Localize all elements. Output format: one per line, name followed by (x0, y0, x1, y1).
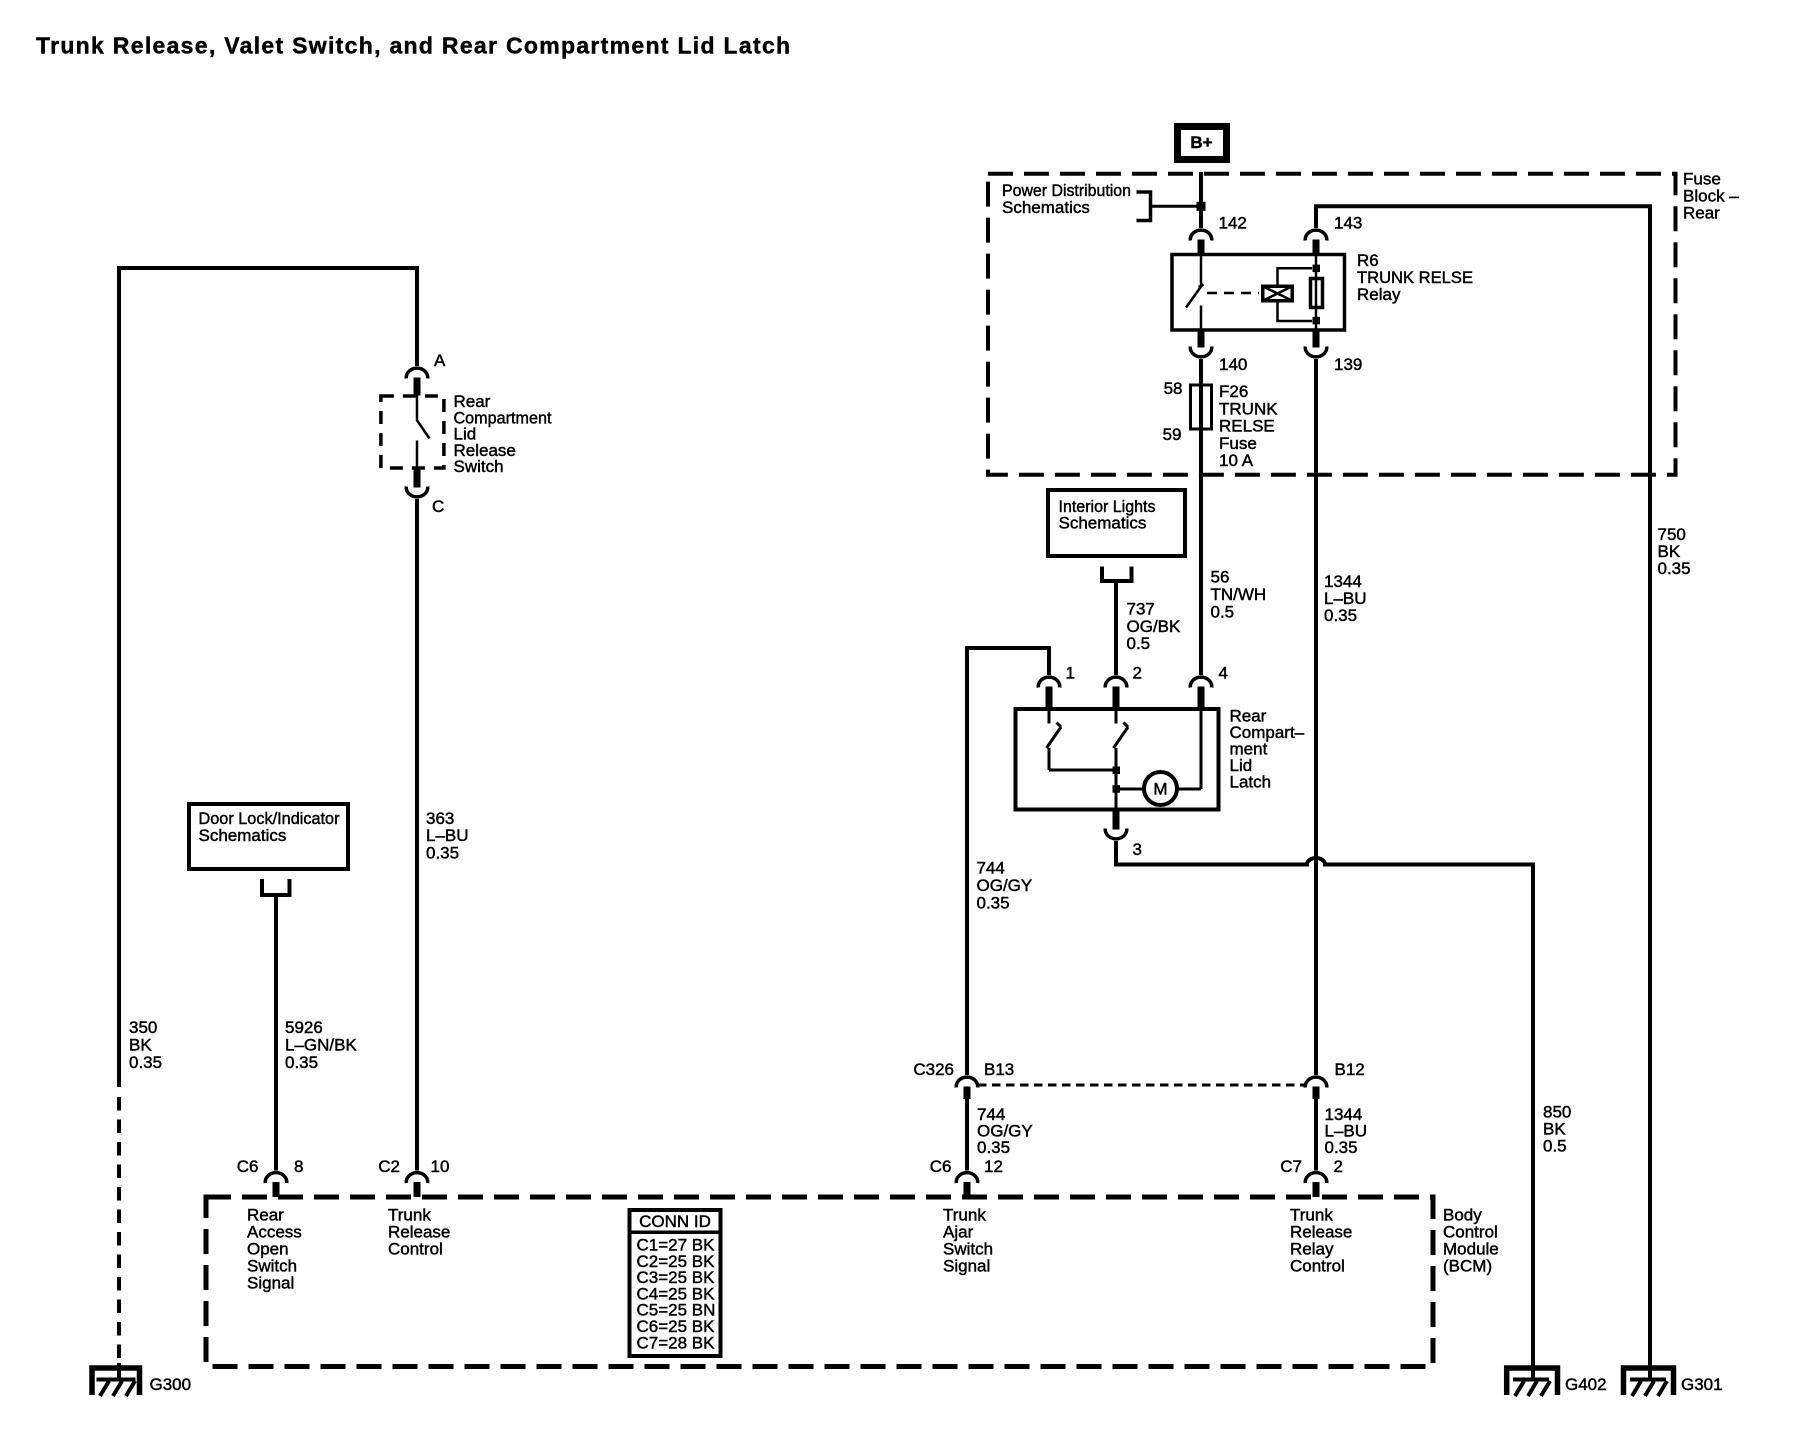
connector C7 pin 2 (1280, 1157, 1343, 1197)
label 750 BK 0.35 (1658, 525, 1691, 578)
svg-text:Trunk Release, Valet Switch, a: Trunk Release, Valet Switch, and Rear Co… (36, 33, 791, 59)
label 850 BK 0.5 (1543, 1103, 1571, 1156)
wire dashed lower segment to G300 (117, 1097, 121, 1366)
svg-text:12: 12 (984, 1157, 1003, 1176)
svg-text:G402: G402 (1565, 1375, 1607, 1394)
svg-text:0.35: 0.35 (129, 1053, 162, 1072)
svg-text:Schematics: Schematics (1059, 514, 1147, 533)
latch switch 1 (1047, 709, 1062, 770)
Fuse Block - Rear dashed box (988, 174, 1676, 475)
svg-text:B13: B13 (984, 1060, 1014, 1079)
wire 1344 from 139 down to B12 (1314, 359, 1318, 1075)
svg-text:143: 143 (1334, 214, 1362, 233)
svg-text:RELSE: RELSE (1219, 417, 1275, 436)
svg-text:142: 142 (1219, 214, 1247, 233)
svg-text:Signal: Signal (943, 1257, 990, 1276)
label 1344 L-BU 0.35 lower (1325, 1105, 1368, 1157)
latch box Rear Compartment Lid Latch (1016, 709, 1219, 810)
svg-text:L–BU: L–BU (426, 826, 469, 845)
motor M (1144, 772, 1177, 805)
svg-text:3: 3 (1133, 840, 1142, 859)
label Power Distribution Schematics (1002, 181, 1131, 217)
svg-text:737: 737 (1127, 600, 1155, 619)
ground G300 (92, 1363, 191, 1396)
svg-text:M: M (1153, 780, 1167, 799)
svg-text:F26: F26 (1219, 382, 1248, 401)
wire 140 to fuse to latch pin 4 (1199, 359, 1203, 675)
junction (1197, 202, 1206, 211)
svg-text:10: 10 (431, 1157, 450, 1176)
connector C6 pin 8 (237, 1157, 304, 1197)
svg-text:0.35: 0.35 (977, 894, 1010, 913)
schematic continuation bracket (interior lights) (1102, 567, 1132, 582)
connector C (406, 469, 444, 516)
label Body Control Module (BCM) (1443, 1206, 1499, 1276)
connector 2 (1105, 664, 1142, 709)
svg-text:G300: G300 (150, 1375, 192, 1394)
label Trunk Ajar Switch Signal (943, 1206, 993, 1276)
svg-text:0.35: 0.35 (977, 1138, 1010, 1157)
svg-text:4: 4 (1219, 664, 1228, 683)
label 56 TN/WH 0.5 (1211, 568, 1267, 622)
svg-text:Latch: Latch (1230, 773, 1272, 792)
wire 737 (1114, 581, 1118, 675)
dotted connector line C326 (978, 1084, 1305, 1087)
label F26 TRUNK RELSE Fuse 10 A (1219, 382, 1278, 470)
connector 139 (1305, 330, 1362, 374)
svg-text:0.5: 0.5 (1127, 634, 1151, 653)
svg-text:0.35: 0.35 (285, 1053, 318, 1072)
label 5926 L-GN/BK 0.35 (285, 1018, 357, 1072)
connector C6 pin 12 (930, 1157, 1003, 1197)
svg-text:Control: Control (1290, 1257, 1345, 1276)
svg-text:BK: BK (129, 1036, 152, 1055)
label 1344 L-BU 0.35 upper (1324, 572, 1367, 625)
label Rear Compartment Lid Latch (1230, 707, 1305, 792)
relay resistor (1311, 255, 1323, 331)
svg-text:Switch: Switch (454, 457, 504, 476)
connector A (406, 351, 446, 396)
svg-text:140: 140 (1219, 355, 1247, 374)
svg-text:C2: C2 (378, 1157, 400, 1176)
label 744 OG/GY 0.35 lower (977, 1105, 1033, 1157)
connector 3 (1105, 810, 1142, 859)
Body Control Module dashed box (206, 1197, 1433, 1367)
svg-text:C6: C6 (237, 1157, 259, 1176)
svg-text:0.5: 0.5 (1543, 1137, 1567, 1156)
wire 363 (415, 499, 419, 1171)
ground G402 (1507, 1363, 1607, 1396)
junction top (1313, 265, 1321, 273)
svg-text:Rear: Rear (1683, 204, 1720, 223)
connector 140 (1190, 330, 1247, 374)
svg-text:B+: B+ (1190, 133, 1212, 152)
connector 1 (1038, 664, 1075, 709)
label 737 OG/BK 0.5 (1127, 600, 1182, 654)
CONN ID table (628, 1210, 723, 1356)
svg-text:C7: C7 (1280, 1157, 1302, 1176)
svg-text:Fuse: Fuse (1219, 434, 1257, 453)
svg-text:OG/GY: OG/GY (977, 876, 1033, 895)
label Fuse Block - Rear (1683, 170, 1739, 223)
svg-text:10 A: 10 A (1219, 451, 1254, 470)
svg-text:0.35: 0.35 (1658, 559, 1691, 578)
svg-text:2: 2 (1334, 1157, 1343, 1176)
svg-text:0.35: 0.35 (1324, 606, 1357, 625)
svg-text:C6: C6 (930, 1157, 952, 1176)
svg-text:350: 350 (129, 1018, 157, 1037)
svg-text:L–GN/BK: L–GN/BK (285, 1036, 357, 1055)
wire B13 to C6/12 (965, 1099, 969, 1171)
relay coil (1263, 268, 1312, 321)
svg-text:0.5: 0.5 (1211, 603, 1235, 622)
svg-text:Signal: Signal (247, 1274, 294, 1293)
svg-text:C7=28 BK: C7=28 BK (637, 1333, 716, 1352)
svg-text:0.35: 0.35 (426, 844, 459, 863)
svg-text:OG/BK: OG/BK (1127, 617, 1182, 636)
label R6 TRUNK RELSE Relay (1357, 251, 1473, 304)
svg-text:59: 59 (1163, 425, 1182, 444)
svg-text:CONN ID: CONN ID (639, 1212, 711, 1231)
svg-text:58: 58 (1164, 379, 1183, 398)
wire 750 BK from 143 up and right down to G301 (1316, 206, 1650, 1366)
svg-text:2: 2 (1133, 664, 1142, 683)
label 363 L-BU 0.35 (426, 809, 469, 863)
svg-text:8: 8 (294, 1157, 303, 1176)
B+ battery feed (1178, 127, 1227, 160)
svg-text:5926: 5926 (285, 1018, 323, 1037)
svg-text:A: A (434, 351, 446, 370)
connector 4 (1190, 664, 1228, 709)
junction bottom (1313, 317, 1321, 325)
power distribution bracket (1137, 192, 1198, 221)
svg-text:C: C (432, 497, 444, 516)
svg-text:139: 139 (1334, 355, 1362, 374)
svg-text:C326: C326 (913, 1060, 954, 1079)
connector C326 B13 (913, 1060, 1014, 1099)
latch switch 2 (ajar) (1114, 709, 1129, 812)
svg-text:Schematics: Schematics (199, 826, 287, 845)
svg-text:1: 1 (1066, 664, 1075, 683)
wire B12 to C7/2 (1314, 1099, 1318, 1171)
fuse F26 (1163, 379, 1212, 444)
svg-text:0.35: 0.35 (1325, 1138, 1358, 1157)
svg-text:744: 744 (977, 859, 1005, 878)
label Trunk Release Control (388, 1206, 450, 1259)
connector 142 (1190, 214, 1247, 254)
svg-text:B12: B12 (1335, 1060, 1365, 1079)
relay actuation dashed link (1207, 292, 1259, 295)
box Interior Lights Schematics (1048, 490, 1185, 556)
relay R6 box (1172, 255, 1345, 331)
wire 5926 (274, 895, 278, 1171)
svg-text:Control: Control (388, 1240, 443, 1259)
box Door Lock/Indicator Schematics (189, 804, 348, 869)
label 350 BK 0.35 (129, 1018, 162, 1072)
label Rear Access Open Switch Signal (247, 1206, 302, 1293)
connector C2 pin 10 (378, 1157, 449, 1197)
svg-text:TRUNK: TRUNK (1219, 399, 1278, 418)
wire 350 BK left branch (119, 268, 417, 1087)
ground G301 (1624, 1363, 1723, 1396)
wire 850 BK from connector 3 to G402 with hop (1116, 841, 1533, 1366)
junction (1113, 785, 1121, 793)
svg-text:TN/WH: TN/WH (1211, 585, 1267, 604)
wire 744 from latch pin 1 to B13 (967, 648, 1049, 1075)
label Trunk Release Relay Control (1290, 1206, 1352, 1276)
schematic continuation bracket (door lock) (262, 879, 290, 895)
switch: Rear Compartment Lid Release Switch (dashed box) (381, 395, 444, 470)
wire B+ to 142 (1199, 172, 1203, 228)
relay switch contact (1186, 255, 1204, 331)
junction (1113, 767, 1121, 775)
svg-text:56: 56 (1211, 568, 1230, 587)
latch internal wires (1049, 709, 1201, 789)
label Rear Compartment Lid Release Switch (454, 392, 552, 476)
label 744 OG/GY 0.35 upper (977, 859, 1033, 913)
svg-text:Relay: Relay (1357, 285, 1401, 304)
svg-text:Schematics: Schematics (1002, 198, 1090, 217)
connector B12 (1305, 1060, 1365, 1099)
connector 143 (1305, 214, 1362, 254)
svg-text:G301: G301 (1681, 1375, 1723, 1394)
svg-text:(BCM): (BCM) (1443, 1257, 1492, 1276)
